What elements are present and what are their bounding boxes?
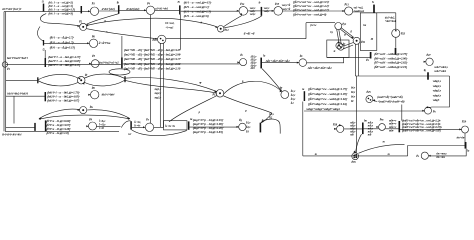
svg-text:va2,v: va2,v: [264, 10, 270, 13]
svg-text:{ba5+M5→d5}· ·{ba5+M5→d5·p→ba5: {ba5+M5→d5}· ·{ba5+M5→d5·p→ba5,@=2.10: [124, 66, 181, 70]
svg-text:m̂v =mv: m̂v =mv: [436, 156, 445, 159]
wire row1 under block: [44, 11, 81, 13]
place P14: [239, 7, 248, 16]
transition t2a: [44, 58, 46, 67]
lens row4 upper right: [87, 110, 130, 119]
svg-text:P̂14: P̂14: [240, 2, 245, 5]
arrowhead into P22a: [237, 61, 239, 63]
arrowhead into P5: [89, 63, 91, 65]
token place P4: [80, 23, 87, 30]
arc tu2 loop right: [261, 119, 280, 134]
svg-text:da1+da2,: da1+da2,: [385, 16, 395, 19]
svg-text:vabg2,v: vabg2,v: [433, 85, 442, 88]
lens row4 upper left: [39, 109, 80, 118]
svg-text:P̂15: P̂15: [275, 2, 280, 5]
place P1: [2, 62, 7, 67]
place P5: [91, 60, 99, 68]
svg-text:vab4+vab4,v: vab4+vab4,v: [434, 66, 448, 69]
wire y57.4: [327, 56, 370, 58]
svg-text:P̂23: P̂23: [401, 32, 406, 35]
arrowhead into P15: [272, 10, 274, 12]
arrowhead into Pz diag: [337, 41, 339, 43]
wire P22b up-right: [307, 57, 344, 62]
svg-text:vab4+vab4: vab4+vab4: [434, 70, 446, 73]
arc P4 to P16: [87, 29, 158, 39]
wire row3 left: [6, 95, 45, 97]
wire row1 left: [4, 11, 43, 13]
svg-text:b̂1,v: b̂1,v: [290, 89, 296, 93]
svg-text:P̂28: P̂28: [333, 123, 338, 126]
arrowhead into P4 upper: [77, 25, 79, 27]
place Px: [145, 123, 153, 131]
lens row3 left eye upper: [38, 74, 78, 79]
svg-text:m̂v+m̂v: m̂v+m̂v: [457, 137, 466, 140]
svg-text:l̂ =l1,v: l̂ =l1,v: [98, 123, 106, 127]
wire t22 to P22b: [262, 62, 299, 64]
svg-text:va3,v: va3,v: [250, 13, 256, 16]
transition tx: [130, 121, 132, 129]
token place P25: [366, 96, 373, 103]
arrowhead into P12: [215, 26, 217, 28]
arrowhead into Pr4: [77, 109, 79, 111]
wire P4r to t5: [155, 9, 180, 11]
wire top-right horizontal: [360, 12, 396, 14]
svg-text:P̂16: P̂16: [152, 39, 157, 42]
wire P23 down: [395, 37, 397, 47]
arrowhead into P16: [155, 38, 157, 40]
svg-text:tw: tw: [262, 119, 265, 122]
svg-text:P̂21: P̂21: [361, 40, 366, 43]
arrowhead into Pv2: [334, 128, 336, 130]
arrowhead lens4 right: [127, 118, 129, 120]
wire P13 east: [353, 11, 361, 13]
arrowhead into Pxr: [422, 110, 424, 112]
lens row3 right eye upper: [84, 74, 124, 78]
svg-text:P̂25: P̂25: [366, 91, 371, 94]
svg-text:bb1+l+bb4: bb1+l+bb4: [102, 92, 115, 96]
transition t1: [43, 4, 45, 12]
svg-text:vabg4,v: vabg4,v: [433, 94, 442, 97]
place Py1: [335, 23, 342, 30]
svg-text:vabg1,v: vabg1,v: [433, 80, 442, 83]
arc P4 to P12: [87, 18, 218, 27]
svg-text:{b̂1·l→a→d̂,@=2.7}·: {b̂1·l→a→d̂,@=2.7}·: [50, 35, 75, 40]
svg-text:mg2,v: mg2,v: [155, 92, 162, 95]
svg-text:l̂v =lv,: l̂v =lv,: [134, 120, 141, 124]
arc P12 to P14: [224, 15, 242, 26]
place P9: [89, 122, 97, 130]
arrowhead into Py5: [237, 126, 239, 128]
place Pv3: [421, 152, 428, 159]
wire tb to P4r: [119, 9, 146, 11]
arrowhead into P17 left: [214, 91, 216, 93]
transition tr2: [370, 52, 372, 59]
svg-text:m̂v =mv,v: m̂v =mv,v: [436, 152, 447, 155]
box row5: [164, 121, 188, 130]
arc tv to P12: [224, 16, 261, 28]
wire subrow: [44, 42, 89, 44]
transition t22: [260, 58, 262, 69]
place Pr: [462, 126, 469, 133]
arrowhead into P4 lower: [87, 24, 89, 26]
svg-text:va2,v+d̂: va2,v+d̂: [282, 8, 291, 12]
svg-text:ba1·l+ba2·l+ba3·l: ba1·l+ba2·l+ba3·l: [7, 56, 28, 60]
arrowhead into P25: [373, 99, 375, 101]
wire mid vertical x150.6: [150, 15, 152, 123]
svg-text:{(b̂4+w·va4+cw→wa4,@=6): {(b̂4+w·va4+cw→wa4,@=6): [293, 12, 326, 17]
svg-text:+da3+da4: +da3+da4: [385, 20, 397, 23]
svg-text:d̂ =d̂·l+ba: d̂ =d̂·l+ba: [98, 40, 110, 45]
wire left double vertical: [4, 12, 6, 132]
wire right loop down: [432, 76, 450, 107]
wire t5 down: [180, 15, 182, 50]
wire P3 to tb: [99, 10, 119, 12]
place P27: [426, 58, 433, 65]
arrowhead into Pr: [459, 128, 461, 130]
transition tb: [118, 5, 120, 14]
wire corner up right: [408, 146, 466, 156]
wire row1 to P14: [181, 10, 239, 12]
svg-text:{b̂3·l→a→d̂,@=3.15}: {b̂3·l→a→d̂,@=3.15}: [50, 45, 76, 50]
arc token to y145.5: [358, 145, 404, 154]
arrowhead into P14 from P12: [240, 13, 242, 15]
svg-text:bb1·l+bb2·l+bb3·l: bb1·l+bb2·l+bb3·l: [7, 92, 28, 96]
wire inner left vertical: [13, 96, 15, 123]
wire row3 lens left: [6, 79, 37, 81]
place P22a: [240, 59, 247, 66]
wire row y128.8: [334, 128, 462, 131]
arc tb to P4: [87, 14, 119, 25]
svg-text:a1+b1+vb1: a1+b1+vb1: [155, 7, 169, 11]
wire tx to Px: [132, 126, 145, 128]
transition t3a: [44, 92, 46, 101]
transition tu: [188, 121, 190, 129]
wire Px to box: [154, 126, 164, 128]
wire x302.8 vertical: [302, 102, 304, 156]
place Pv2: [337, 125, 344, 132]
arrowhead into P8: [88, 94, 90, 96]
transition tg: [427, 72, 429, 79]
wire P16 long east y38.7: [166, 38, 306, 40]
svg-text:{(b̂1+vabg1+cw→wab1,@=1.75}·: {(b̂1+vabg1+cw→wab1,@=1.75}·: [308, 87, 348, 92]
arrowhead P23: [395, 29, 397, 31]
svg-text:{b4: l→a→w4,@=3}: {b4: l→a→w4,@=3}: [48, 11, 73, 15]
loop ellipse t6: [109, 69, 130, 75]
svg-text:P̂35: P̂35: [351, 161, 356, 164]
svg-text:{(b̂3+vabg3+cw→wab3,@=1.62}·: {(b̂3+vabg3+cw→wab3,@=1.62}·: [308, 97, 348, 102]
token place Pr3: [77, 76, 85, 84]
svg-text:d·vb2·(vb2): d·vb2·(vb2): [126, 7, 139, 11]
svg-text:P̂12: P̂12: [224, 28, 229, 31]
arc lens3 to P17 upper: [126, 78, 217, 92]
diagonal Py1 to Pz: [337, 29, 342, 43]
svg-text:vabg3,v: vabg3,v: [433, 90, 442, 93]
svg-text:d̂ =d̂1 =d̂: d̂ =d̂1 =d̂: [243, 31, 254, 36]
svg-text:mg3,v: mg3,v: [155, 97, 162, 100]
svg-text:bv̂ =va1,: bv̂ =va1,: [165, 22, 174, 25]
transition t23: [395, 48, 397, 55]
place P8: [91, 91, 99, 99]
place Pxr: [425, 107, 432, 114]
arrowhead into P13: [342, 10, 344, 12]
arrow into P25: [373, 100, 377, 101]
svg-text:+va3+va4: +va3+va4: [354, 10, 365, 13]
wire row2 mid: [46, 63, 121, 65]
transition tv: [260, 7, 262, 16]
svg-text:P̂27: P̂27: [426, 54, 431, 57]
svg-text:â1·l+vb1·(l·a1·)·l: â1·l+vb1·(l·a1·)·l: [2, 7, 21, 11]
svg-text:fw=w: fw=w: [310, 24, 316, 27]
arc left to subrow: [37, 27, 43, 42]
svg-text:P̂17: P̂17: [212, 93, 217, 96]
transition t4a: [45, 120, 47, 131]
arrowhead into P27: [424, 61, 426, 63]
wire P21 down double: [355, 44, 358, 76]
transition t5a: [34, 123, 36, 131]
subrow tick: [43, 40, 45, 46]
macro box M: [360, 13, 377, 51]
diagonal Pz to P21: [344, 43, 354, 49]
token place Py2: [336, 43, 342, 49]
wire tm3 down-left: [429, 149, 466, 156]
svg-text:{ba3·l+l→a→ba3,@=4.15}: {ba3·l+l→a→ba3,@=4.15}: [48, 63, 81, 67]
arc lens into tx: [121, 121, 130, 128]
transition tu2: [259, 123, 261, 133]
svg-text:l̂ =lv,v: l̂ =lv,v: [98, 119, 106, 123]
transition t6: [121, 57, 123, 68]
place P23: [392, 29, 400, 37]
arrowhead into Pxr top: [427, 106, 429, 108]
svg-text:P̂29: P̂29: [462, 120, 467, 123]
svg-text:Δb̂1+Δb̂2+Δb̂3+Δb̂4: Δb̂1+Δb̂2+Δb̂3+Δb̂4: [307, 66, 332, 71]
lens row3 left eye lower: [38, 81, 78, 86]
transition tm3: [465, 142, 467, 149]
token place P21: [353, 37, 360, 44]
arrowhead into P4r: [144, 9, 146, 11]
transition lens3 left: [37, 77, 39, 83]
token place P16: [158, 35, 166, 43]
arrowhead into P14: [237, 10, 239, 12]
place P13: [345, 7, 353, 15]
wire bottom-left long: [5, 130, 119, 132]
place Py5: [239, 123, 246, 130]
place P6: [89, 39, 97, 47]
svg-text:va1,v+d̂: va1,v+d̂: [282, 3, 291, 7]
svg-text:vabg5: vabg5: [433, 99, 440, 102]
svg-text:l̂v =lv =lv: l̂v =lv =lv: [165, 125, 176, 129]
svg-text:{bb3·l+l→a→bb3,@=4.07}: {bb3·l+l→a→bb3,@=4.07}: [47, 99, 80, 103]
svg-text:{ba4+M4→d4}· ·{ba4+M4→d4·p→ba4: {ba4+M4→d4}· ·{ba4+M4→d4·p→ba4,@=2.66·: [124, 62, 181, 66]
svg-text:{b1·l→a→wa1,@=4.5}·: {b1·l→a→wa1,@=4.5}·: [184, 0, 212, 4]
transition ta3: [303, 91, 305, 101]
arrowhead lens3 token left: [78, 78, 80, 80]
arrowhead into Pf: [280, 90, 282, 92]
arrowhead into Pv3: [428, 155, 430, 157]
svg-text:l̂ =l2: l̂ =l2: [98, 127, 104, 131]
svg-text:Δb̂5: Δb̂5: [249, 67, 255, 71]
arc into tu2: [261, 113, 272, 123]
svg-text:P̂u: P̂u: [89, 105, 93, 108]
place P3: [90, 7, 98, 15]
svg-text:lv̂·l+lv̂·l+lv̂·l+lv̂·l: lv̂·l+lv̂·l+lv̂·l+lv̂·l: [2, 132, 21, 136]
svg-text:Δb̂1+Δb̂2+Δb̂3+Δb̂4: Δb̂1+Δb̂2+Δb̂3+Δb̂4: [265, 58, 290, 63]
svg-text:P̂y1: P̂y1: [342, 23, 347, 26]
arc lens3 to P17 lower: [126, 80, 217, 93]
svg-text:ba1+ba2+a1+a2: ba1+ba2+a1+a2: [99, 60, 119, 64]
svg-text:b̂2,v: b̂2,v: [290, 93, 296, 97]
svg-text:{l̂4·l+a→l4,@=1.8}: {l̂4·l+a→l4,@=1.8}: [46, 130, 69, 135]
svg-text:l̂v =lv: l̂v =lv: [134, 124, 141, 128]
wire P16 down double: [160, 43, 163, 127]
wire P9 east: [97, 126, 121, 128]
arc t1 S to P4: [40, 14, 79, 26]
svg-text:P̂13: P̂13: [344, 3, 349, 6]
wire t2 to P3: [82, 10, 90, 12]
place P4r: [146, 6, 154, 14]
wire t2a link: [44, 50, 46, 58]
arc under row5: [132, 130, 187, 136]
arrowhead into P21 diag: [351, 37, 353, 39]
svg-text:d·vb1·(vb1): d·vb1·(vb1): [102, 7, 115, 11]
svg-text:{(b̂2+vabg2+cw→wab2,@=1.95}·: {(b̂2+vabg2+cw→wab2,@=1.95}·: [308, 92, 348, 97]
svg-text:(vad1+vb̂)+(vad2+vb̂): (vad1+vb̂)+(vad2+vb̂): [377, 94, 403, 99]
transition tm1: [362, 123, 364, 135]
wire row2 left: [6, 63, 45, 65]
diagonal Py1 to P21: [340, 28, 353, 39]
token place dark: [352, 153, 359, 160]
svg-text:{b4·l→a→wa4,@=6}: {b4·l→a→wa4,@=6}: [184, 14, 210, 18]
arrowhead into P9: [86, 125, 88, 127]
transition t5: [179, 5, 181, 14]
svg-text:{b2·l→a→wa2,@=1}·: {b2·l→a→wa2,@=1}·: [184, 5, 210, 9]
svg-text:{b̂8+va4·l→wâba4,@=2.19}: {b̂8+va4·l→wâba4,@=2.19}: [374, 64, 408, 69]
wire P14 to tv: [248, 10, 261, 12]
wire tu east: [190, 126, 239, 128]
arrowhead into P22b: [297, 62, 299, 64]
svg-text:{b̂2·l→a→d̂,@=1.7}·: {b̂2·l→a→d̂,@=1.7}·: [50, 40, 75, 45]
arrowhead into dark token: [353, 151, 355, 153]
arrowhead into Pm: [376, 126, 378, 128]
svg-text:{mg4+l4+p→b4,@=1.83}: {mg4+l4+p→b4,@=1.83}: [193, 130, 224, 134]
transition tv2: [373, 5, 375, 13]
arc loop into Pxr: [429, 106, 432, 109]
transition t2: [80, 6, 82, 13]
arc tm1 to dark token: [356, 134, 362, 152]
lens row3 right eye lower: [84, 80, 124, 86]
arrowhead on lens curve: [199, 82, 201, 84]
svg-text:b̂3,v: b̂3,v: [290, 97, 296, 101]
svg-text:mg1,v: mg1,v: [155, 88, 162, 91]
arrowhead lens4 left: [39, 118, 41, 120]
wire vertical x306: [305, 23, 307, 39]
token place Pr4: [80, 107, 87, 114]
svg-text:+l =va1: +l =va1: [165, 26, 174, 29]
wire y22.7 to cluster: [306, 22, 335, 24]
arc P17 down-right: [223, 96, 272, 113]
wire row5 left: [6, 126, 35, 128]
place Pm: [379, 124, 386, 131]
place Pf: [281, 91, 289, 99]
lens row4 lower: [39, 115, 130, 119]
arrowhead into tu2: [261, 120, 263, 123]
arch P17 to Pf: [224, 81, 282, 94]
wire bottom y156: [303, 155, 408, 157]
place P15: [274, 7, 283, 16]
wire Pr down: [464, 133, 466, 142]
wire t6 up: [121, 36, 123, 57]
wire x401.8 vertical: [401, 105, 403, 121]
token place P17: [216, 90, 224, 98]
svg-text:{b3·l→a→wa3,@=1.5}·: {b3·l→a→wa3,@=1.5}·: [184, 9, 212, 13]
arrowhead into P3: [88, 10, 90, 12]
svg-text:{ba2+M2→d2}· ·{ba2+M2→d2·p→ba2: {ba2+M2→d2}· ·{ba2+M2→d2·p→ba2,@=2.98·: [124, 53, 181, 57]
svg-text:+(vad3+vb̂)+(vad4+vb̂): +(vad3+vb̂)+(vad4+vb̂): [377, 99, 404, 104]
wire tv to P15: [262, 10, 274, 12]
wire right vertical upper: [395, 13, 397, 29]
box cluster: [327, 40, 349, 57]
svg-text:{(b̂4+vabg4+cw→wab4,@=1.64}: {(b̂4+vabg4+cw→wab4,@=1.64}: [308, 102, 348, 107]
wire x356.5 vertical lower: [356, 76, 358, 153]
arrowhead into Px: [143, 126, 145, 128]
arc t22 to Pf: [262, 69, 282, 92]
svg-text:{(mb̂4+cw4+wb̂v+cw→ww4,@=1.85}: {(mb̂4+cw4+wb̂v+cw→ww4,@=1.85}: [402, 129, 441, 133]
wire row2 to P22a: [123, 63, 240, 65]
svg-text:{ba1+M1→d1}· ·{ba1+M1→d1·p→ba1: {ba1+M1→d1}· ·{ba1+M1→d1·p→ba1,@=3.25·: [124, 48, 181, 52]
token place P12: [217, 26, 224, 33]
arrowhead into P6: [87, 42, 89, 44]
transition tm2: [398, 121, 400, 132]
svg-text:vabg1+vabg2+vabg3+vabg4: vabg1+vabg2+vabg3+vabg4: [306, 107, 340, 111]
wire y111 center: [304, 110, 425, 112]
arrowhead lens3 token right: [82, 82, 84, 84]
token place Pz: [338, 44, 344, 50]
wire right row y76: [355, 75, 449, 77]
transition lens3 right: [124, 76, 126, 82]
place P22b: [299, 59, 307, 67]
svg-text:{ba3+M3→d3}· ·{ba3+M3→d3·p→ba3: {ba3+M3→d3}· ·{ba3+M3→d3·p→ba3,@=3.17·: [124, 57, 181, 61]
arc P17 down-left: [169, 96, 217, 122]
